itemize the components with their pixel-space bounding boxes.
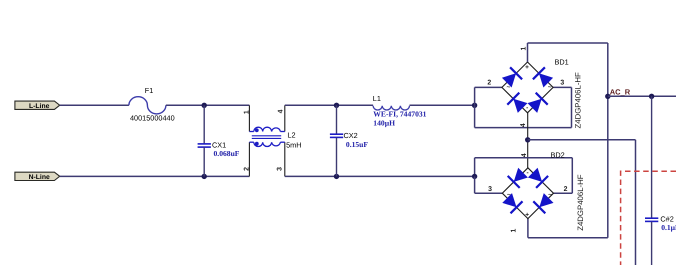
capacitor CX2 top lead	[336, 105, 338, 134]
svg-text:~: ~	[507, 84, 511, 91]
BD2 polarity marks + ~ ~ -	[507, 169, 552, 218]
value 0.15uF	[346, 140, 369, 149]
svg-text:140µH: 140µH	[373, 119, 395, 128]
wire BD1 pin 4 down to minus junction and BD2 pin 4	[527, 113, 529, 169]
label BD2	[551, 151, 565, 160]
svg-text:40015000440: 40015000440	[130, 113, 175, 122]
svg-text:2: 2	[244, 167, 251, 171]
BD1 diode bl	[507, 93, 527, 113]
port connector N-Line	[15, 172, 60, 181]
BD1 diode tr	[533, 67, 553, 87]
capacitor CX2 bottom lead	[336, 138, 338, 177]
BD1 pin numbers	[487, 47, 564, 128]
svg-text:1: 1	[511, 229, 518, 233]
BD2 diode br	[533, 193, 553, 213]
BD2 part number Z4DGP406L-HF (rotated)	[576, 174, 585, 231]
bridge rectifier BD2 body (diamond outline)	[502, 168, 553, 219]
svg-text:BD1: BD1	[555, 57, 569, 66]
choke L2 pin numbers 1 2 4 3	[244, 109, 285, 171]
BD1 part number Z4DGP406L-HF (rotated)	[574, 72, 583, 129]
label BD1	[555, 57, 569, 66]
label F1	[145, 86, 154, 95]
junction AC_R	[605, 94, 610, 99]
choke L2 pin 2 leg	[249, 142, 253, 176]
choke L2 pin 4 leg	[280, 105, 284, 131]
fuse F1 symbol	[129, 97, 166, 114]
wire node A up to BD1 pin 2	[475, 87, 502, 105]
wire choke pin4 to L1 (through CX2 junction)	[285, 104, 373, 106]
wire node N down to BD2 pin 3	[475, 176, 503, 193]
junction at CX1 top	[202, 103, 207, 108]
BD2 diode tl	[508, 168, 528, 188]
svg-text:F1: F1	[145, 86, 154, 95]
svg-text:1: 1	[521, 47, 528, 51]
label C#2	[660, 214, 673, 223]
capacitor CX1 bottom lead	[203, 147, 205, 176]
label L1	[373, 94, 381, 103]
net label AC_R	[610, 88, 631, 97]
capacitor C#2 bottom lead	[651, 222, 653, 265]
value 5mH	[286, 140, 301, 149]
wire node N up over to BD2 pin 2	[475, 158, 573, 193]
svg-text:5mH: 5mH	[286, 140, 301, 149]
label CX2	[344, 131, 358, 140]
choke L2 pin 3 leg	[280, 142, 284, 176]
svg-text:4: 4	[277, 109, 284, 113]
junction C#2 branch	[649, 94, 654, 99]
svg-text:0.15uF: 0.15uF	[346, 140, 369, 149]
svg-text:4: 4	[520, 123, 527, 127]
vertical wire AC_R rail (BD1+ to BD2+ connection)	[607, 43, 609, 238]
svg-text:1: 1	[244, 110, 251, 114]
wire fuse to choke pin1 (through CX1 junction)	[166, 104, 250, 106]
junction at CX2 top	[334, 103, 339, 108]
BD2 diode bl	[502, 193, 522, 213]
choke L2 core lines	[252, 136, 281, 139]
wire minus rail to right and down to sheet edge	[528, 140, 636, 265]
svg-text:L1: L1	[373, 94, 381, 103]
inductor L1 symbol	[373, 106, 409, 110]
choke L2 top winding	[254, 127, 281, 131]
bridge rectifier BD1 body (diamond outline)	[502, 62, 553, 113]
value 0.068uF	[214, 149, 240, 158]
svg-text:~: ~	[507, 192, 511, 199]
svg-text:~: ~	[548, 84, 552, 91]
wire BD2 pin 1 bottom run	[528, 218, 608, 238]
BD1 diode tl	[502, 67, 522, 87]
svg-text:C#2: C#2	[660, 214, 673, 223]
junction minus rail	[525, 137, 530, 142]
wire N-Line to choke pin2 (through CX1 junction)	[60, 175, 250, 177]
label L2	[287, 130, 295, 139]
wire L1 to node A	[410, 104, 475, 106]
BD2 pin numbers	[488, 153, 568, 232]
label CX1	[212, 141, 226, 150]
BD1 polarity marks + ~ ~ -	[507, 64, 552, 111]
junction node N	[472, 174, 477, 179]
svg-text:2: 2	[564, 186, 568, 193]
wire AC_R to right sheet edge	[608, 95, 676, 97]
svg-text:Z4DGP406L-HF: Z4DGP406L-HF	[576, 174, 585, 231]
BD1 diode br	[528, 93, 548, 113]
junction node A (L1 output)	[472, 103, 477, 108]
svg-text:WE-FI, 7447031: WE-FI, 7447031	[373, 110, 426, 119]
capacitor C#2 plates	[645, 218, 658, 221]
capacitor CX2 plates	[330, 134, 343, 137]
svg-text:L2: L2	[287, 130, 295, 139]
value WE-FI, 7447031	[373, 110, 426, 119]
svg-text:-: -	[527, 169, 529, 176]
wire L-Line to fuse F1	[60, 104, 129, 106]
svg-text:~: ~	[548, 192, 552, 199]
svg-text:3: 3	[488, 186, 492, 193]
choke L2 bottom winding	[254, 142, 281, 146]
svg-text:3: 3	[560, 79, 564, 86]
red dashed partition boundary	[621, 171, 676, 265]
svg-text:4: 4	[521, 153, 528, 157]
svg-text:0.1µF: 0.1µF	[661, 223, 676, 232]
junction at CX2 bottom	[334, 174, 339, 179]
svg-text:L-Line: L-Line	[29, 103, 50, 110]
svg-text:AC_R: AC_R	[610, 88, 631, 97]
wire node A down to BD1 pin 3 loop	[475, 87, 572, 127]
svg-text:N-Line: N-Line	[29, 174, 50, 181]
capacitor CX1 top lead	[203, 105, 205, 143]
svg-text:Z4DGP406L-HF: Z4DGP406L-HF	[574, 72, 583, 129]
svg-text:CX2: CX2	[344, 131, 358, 140]
junction at CX1 bottom	[202, 174, 207, 179]
svg-text:BD2: BD2	[551, 151, 565, 160]
svg-text:-: -	[526, 104, 528, 111]
svg-text:+: +	[525, 212, 529, 219]
svg-text:+: +	[525, 64, 529, 71]
capacitor C#2 top lead	[651, 96, 653, 218]
svg-text:0.068uF: 0.068uF	[214, 149, 240, 158]
value 40015000440	[130, 113, 175, 122]
svg-text:2: 2	[487, 79, 491, 86]
BD2 diode tr	[528, 168, 548, 188]
port connector L-Line	[15, 101, 60, 110]
choke L2 top polarity dot	[255, 128, 259, 132]
capacitor CX1 plates	[198, 144, 211, 147]
wire BD1 pin 1 up and right to AC_R vertical	[528, 43, 608, 62]
value 0.1uF	[661, 223, 676, 232]
choke L2 pin 1 leg	[249, 105, 253, 131]
svg-text:3: 3	[277, 167, 284, 171]
wire choke pin3 to node N (through CX2 junction)	[285, 175, 475, 177]
value 140uH	[373, 119, 395, 128]
choke L2 bottom polarity dot	[255, 142, 259, 146]
